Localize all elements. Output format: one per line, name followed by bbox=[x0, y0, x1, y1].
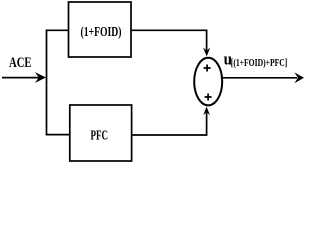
plus sign bottom bbox=[205, 94, 212, 101]
arrowhead output bbox=[294, 72, 304, 83]
wire PFC to summer horizontal bbox=[132, 134, 207, 136]
wire ACE input arrow shaft bbox=[2, 77, 40, 79]
svg-text:ACE: ACE bbox=[9, 55, 32, 71]
svg-text:PFC: PFC bbox=[91, 129, 109, 144]
wire trunk to PFC box bbox=[46, 134, 70, 136]
wire trunk to (1+FOID) box bbox=[46, 29, 69, 31]
plus sign top bbox=[204, 65, 211, 72]
summer U1 ellipse bbox=[194, 58, 222, 106]
block (1+FOID) box bbox=[69, 2, 132, 57]
arrowhead ACE input bbox=[35, 72, 46, 83]
wire trunk vertical bbox=[46, 30, 48, 136]
wire down into summer bbox=[206, 30, 208, 53]
wire up into summer bbox=[206, 111, 208, 136]
arrowhead into summer bottom bbox=[203, 107, 210, 116]
wire (1+FOID) to summer horizontal bbox=[131, 29, 207, 31]
svg-text:[(1+FOID)+PFC]: [(1+FOID)+PFC] bbox=[231, 58, 287, 69]
svg-text:(1+FOID): (1+FOID) bbox=[81, 25, 122, 40]
arrowhead into summer top bbox=[203, 47, 210, 56]
wire summer output shaft bbox=[221, 77, 297, 79]
block PFC box bbox=[70, 105, 132, 161]
